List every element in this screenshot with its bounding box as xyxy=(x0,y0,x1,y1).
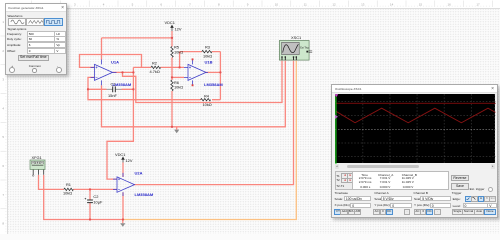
svg-text:LM358AM: LM358AM xyxy=(135,192,154,197)
svg-text:6: 6 xyxy=(160,2,162,6)
svg-text:10kΩ: 10kΩ xyxy=(63,190,72,195)
svg-text:12V: 12V xyxy=(126,158,133,163)
svg-text:6: 6 xyxy=(2,164,4,168)
svg-text:Ext Trig: Ext Trig xyxy=(300,46,309,49)
svg-text:4: 4 xyxy=(103,2,105,6)
svg-text:U1B: U1B xyxy=(205,60,213,65)
svg-text:15nF: 15nF xyxy=(108,93,117,98)
svg-text:R3: R3 xyxy=(205,44,210,49)
svg-text:9: 9 xyxy=(247,2,249,6)
svg-text:16: 16 xyxy=(448,2,452,6)
svg-text:13: 13 xyxy=(361,2,365,6)
svg-text:4.7kΩ: 4.7kΩ xyxy=(150,69,160,74)
svg-text:XSC1: XSC1 xyxy=(291,35,301,40)
svg-text:U1A: U1A xyxy=(111,60,119,65)
svg-text:10kΩ: 10kΩ xyxy=(174,85,183,90)
svg-text:LM358AM: LM358AM xyxy=(113,82,132,87)
svg-text:10: 10 xyxy=(275,2,279,6)
svg-text:15: 15 xyxy=(419,2,423,6)
svg-text:7: 7 xyxy=(2,193,4,197)
svg-text:XFG1: XFG1 xyxy=(32,155,42,160)
svg-text:10µF: 10µF xyxy=(93,200,103,205)
svg-text:4: 4 xyxy=(2,106,4,110)
svg-text:R1: R1 xyxy=(66,182,71,187)
svg-text:R2: R2 xyxy=(152,60,157,65)
svg-text:LM358AM: LM358AM xyxy=(204,82,223,87)
svg-text:17: 17 xyxy=(476,2,480,6)
svg-text:U2A: U2A xyxy=(135,171,143,176)
svg-text:10kΩ: 10kΩ xyxy=(174,49,183,54)
svg-text:12: 12 xyxy=(332,2,336,6)
svg-text:5: 5 xyxy=(2,135,4,139)
svg-text:R4: R4 xyxy=(204,94,210,99)
svg-text:10kΩ: 10kΩ xyxy=(203,102,212,107)
svg-text:8: 8 xyxy=(2,222,4,226)
svg-text:14: 14 xyxy=(390,2,394,6)
svg-text:C2: C2 xyxy=(93,194,98,199)
svg-text:12V: 12V xyxy=(175,27,182,32)
svg-text:3: 3 xyxy=(2,78,4,82)
svg-text:10kΩ: 10kΩ xyxy=(203,53,212,58)
svg-text:VDC1: VDC1 xyxy=(115,152,125,157)
svg-text:VDC1: VDC1 xyxy=(165,20,175,25)
svg-text:11: 11 xyxy=(304,2,307,6)
svg-text:7: 7 xyxy=(189,2,191,6)
svg-text:3: 3 xyxy=(74,2,76,6)
svg-text:5: 5 xyxy=(132,2,134,6)
svg-text:8: 8 xyxy=(218,2,220,6)
